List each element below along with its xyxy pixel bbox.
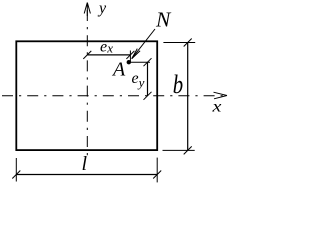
N arrowhead bbox=[132, 49, 140, 59]
svg-text:y: y bbox=[137, 75, 145, 90]
x-axis arrow bbox=[214, 92, 228, 99]
svg-text:x: x bbox=[211, 97, 221, 115]
e_y dimension line bbox=[147, 62, 149, 96]
svg-text:A: A bbox=[111, 59, 126, 81]
svg-text:e: e bbox=[100, 39, 107, 56]
force N line bbox=[132, 29, 155, 59]
e_y extension line bbox=[129, 61, 150, 63]
svg-text:e: e bbox=[132, 70, 139, 87]
l extension line right bbox=[156, 158, 158, 183]
svg-text:b: b bbox=[173, 71, 184, 100]
b dimension line bbox=[187, 43, 189, 151]
b extension line top bbox=[163, 42, 195, 44]
l extension line left bbox=[15, 158, 17, 182]
e_y tick top bbox=[144, 58, 152, 66]
e_x extension line bbox=[129, 51, 131, 63]
svg-text:l: l bbox=[82, 153, 88, 175]
point A dot bbox=[127, 60, 131, 64]
y-axis arrow bbox=[84, 3, 90, 17]
svg-text:N: N bbox=[155, 8, 172, 32]
e_x tick right bbox=[126, 51, 134, 59]
e_y tick bottom bbox=[144, 92, 152, 100]
cross-section rectangle bbox=[16, 41, 157, 150]
l tick left bbox=[12, 171, 20, 179]
vertical centerline (y axis) bbox=[86, 10, 88, 156]
e_x tick left bbox=[83, 51, 91, 59]
svg-text:y: y bbox=[97, 0, 107, 17]
l dimension line bbox=[16, 174, 157, 176]
b extension line bottom bbox=[163, 149, 195, 151]
b tick bottom bbox=[184, 146, 192, 154]
svg-text:x: x bbox=[106, 41, 113, 56]
e_x dimension line bbox=[87, 54, 130, 56]
l tick right bbox=[153, 171, 161, 179]
b tick top bbox=[184, 39, 192, 47]
horizontal centerline (x axis) bbox=[2, 95, 226, 97]
